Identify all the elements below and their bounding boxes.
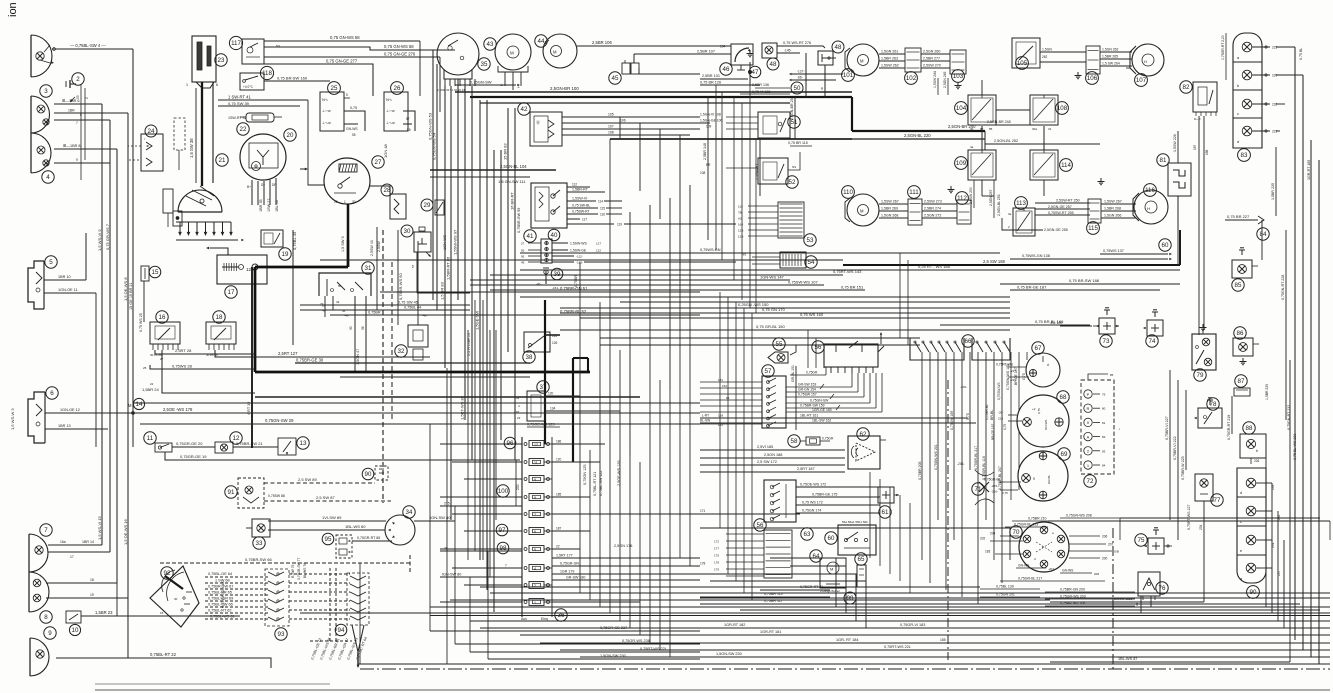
svg-text:0,75GN 125: 0,75GN 125 <box>583 465 587 485</box>
component 93 number <box>275 628 287 640</box>
component 100 number <box>497 485 509 497</box>
svg-text:3a: 3a <box>1008 212 1012 216</box>
svg-text:104: 104 <box>720 45 726 49</box>
svg-text:0,75 BR 151: 0,75 BR 151 <box>841 285 864 290</box>
wire vert mid x744 <box>743 308 745 593</box>
svg-text:0,75 WS 160: 0,75 WS 160 <box>800 312 824 317</box>
wire vertical bundle x445 <box>444 86 446 368</box>
svg-text:0,75SW-WS 107: 0,75SW-WS 107 <box>788 280 818 285</box>
wire 0,75GR-GE 20 <box>172 446 215 448</box>
component 21 arrow <box>305 168 308 171</box>
svg-text:30a: 30a <box>1032 127 1037 131</box>
svg-text:2,5RT 28: 2,5RT 28 <box>175 348 192 353</box>
wire 66 arrow <box>789 79 792 81</box>
wire y345 <box>600 344 920 346</box>
component 97 number <box>496 524 508 536</box>
wire 40 out1 <box>552 242 568 244</box>
svg-text:9: 9 <box>48 630 52 637</box>
svg-text:1BL-WS 87: 1BL-WS 87 <box>1118 657 1137 661</box>
svg-text:0,75 BR 227: 0,75 BR 227 <box>1227 214 1250 219</box>
component 57 switch panel <box>762 376 786 428</box>
component 92 ignition steering lock <box>150 566 199 627</box>
svg-text:48: 48 <box>770 61 777 68</box>
svg-text:0,75BL-WS 61: 0,75BL-WS 61 <box>210 615 235 619</box>
wire lamp4 b <box>54 162 110 164</box>
svg-text:1,5 WS-W 3: 1,5 WS-W 3 <box>10 408 15 430</box>
svg-text:1,5GN 261: 1,5GN 261 <box>881 50 898 54</box>
svg-text:0,75GR-BL 116: 0,75GR-BL 116 <box>982 456 986 480</box>
svg-text:78: 78 <box>1210 401 1217 408</box>
svg-text:1,5 SW 38: 1,5 SW 38 <box>189 138 194 158</box>
component 82 switch <box>1193 82 1217 112</box>
wire bottom y566 <box>790 566 846 613</box>
svg-text:Aus: Aus <box>521 617 527 621</box>
svg-text:2,5BR 107: 2,5BR 107 <box>697 50 715 54</box>
svg-text:104: 104 <box>956 105 967 112</box>
svg-text:0,75 SW 45: 0,75 SW 45 <box>398 301 418 305</box>
component 6 number <box>46 387 58 399</box>
wire vert x430 <box>429 424 431 631</box>
svg-text:24: 24 <box>148 128 155 135</box>
fuse 8 <box>529 494 544 501</box>
wire 70 right 207 <box>1069 543 1106 545</box>
component 38 number <box>523 351 535 363</box>
wire 0,75GN-SW <box>455 84 516 86</box>
component 10 relay <box>66 611 81 623</box>
component 86 lamp <box>1233 338 1253 356</box>
svg-text:107: 107 <box>608 125 614 129</box>
wire fuse out 187 <box>552 530 590 532</box>
svg-text:-151-: -151- <box>552 286 559 290</box>
svg-text:⊥⎓w: ⊥⎓w <box>322 109 331 113</box>
component 41 number <box>524 230 536 242</box>
dashed wires 95 down <box>329 568 331 641</box>
svg-text:c: c <box>1237 112 1239 116</box>
svg-text:187: 187 <box>556 527 562 531</box>
svg-text:GR-SW 180: GR-SW 180 <box>566 576 585 580</box>
component 55 lighter <box>768 352 788 363</box>
svg-text:28: 28 <box>322 304 326 308</box>
svg-text:0,75GN-WS 201: 0,75GN-WS 201 <box>934 444 938 470</box>
svg-text:1,5GN-VI 108: 1,5GN-VI 108 <box>700 113 721 117</box>
svg-text:127: 127 <box>596 242 601 246</box>
component 90 number <box>362 468 374 480</box>
svg-text:2,5BR 106: 2,5BR 106 <box>592 40 612 45</box>
wire 1SW 68 <box>205 582 268 584</box>
svg-text:2,5GN-BL 104: 2,5GN-BL 104 <box>500 164 527 169</box>
svg-text:5: 5 <box>534 548 536 552</box>
dashed vertical x392 <box>391 262 393 420</box>
svg-text:105: 105 <box>1017 60 1028 67</box>
svg-text:0,75SW 157: 0,75SW 157 <box>798 393 817 397</box>
wire 1,5GN-SW 230b <box>488 658 700 660</box>
component 40 number <box>548 229 560 241</box>
wire 0,75BL-WS 61 <box>205 618 268 620</box>
svg-text:6: 6 <box>50 390 54 397</box>
svg-text:0,75SW 169: 0,75SW 169 <box>950 411 954 430</box>
component 90 tail lamp cluster <box>1237 468 1266 583</box>
svg-text:1SW 27: 1SW 27 <box>267 198 271 212</box>
svg-text:1,5GN: 1,5GN <box>1042 48 1052 52</box>
svg-text:7: 7 <box>76 121 78 125</box>
svg-text:IGN-SW 80: IGN-SW 80 <box>430 515 451 520</box>
component 91 number <box>225 486 237 498</box>
wire 1VI-SW 89 <box>268 520 386 522</box>
wire 2,5BR 107 <box>634 53 731 55</box>
svg-text:1,5SW-WS: 1,5SW-WS <box>570 242 587 246</box>
wire vertical bundle x487 <box>486 100 488 590</box>
svg-text:R-SW 79: R-SW 79 <box>291 564 295 578</box>
gauge 67 clock <box>1026 353 1060 387</box>
wire 41 out rt <box>567 191 605 193</box>
wire 1BR 10 <box>44 279 86 281</box>
svg-text:-217-: -217- <box>1010 369 1017 373</box>
wire 41 out bl <box>567 207 598 209</box>
svg-text:34: 34 <box>406 509 413 516</box>
wire right bundle x954 <box>953 352 955 540</box>
svg-text:202: 202 <box>980 537 986 541</box>
svg-text:100: 100 <box>498 488 509 495</box>
wire 67 in b <box>1008 376 1029 378</box>
junction 71 <box>975 470 994 476</box>
svg-text:90: 90 <box>365 471 372 478</box>
svg-text:BR: BR <box>706 163 711 167</box>
wire 0,75GN 170 <box>560 312 1010 314</box>
svg-text:0,75BL>GR 69: 0,75BL>GR 69 <box>208 597 233 601</box>
wire bottom y615 <box>430 615 1330 617</box>
wire y338 <box>600 337 920 339</box>
svg-text:94: 94 <box>338 627 345 634</box>
svg-text:57: 57 <box>411 264 415 268</box>
wire 22 to coil <box>308 100 325 185</box>
svg-text:102: 102 <box>906 75 917 82</box>
component 104 number <box>955 102 968 115</box>
svg-text:110: 110 <box>843 189 853 196</box>
svg-text:2,5BR 101: 2,5BR 101 <box>702 74 720 78</box>
svg-text:13: 13 <box>300 440 307 447</box>
wire 196 down <box>195 88 197 183</box>
component 24 sensor box <box>141 134 163 171</box>
svg-text:P: P <box>1087 392 1090 397</box>
svg-text:⊥⎓w: ⊥⎓w <box>386 109 395 113</box>
svg-text:108: 108 <box>700 171 706 175</box>
headlamp unit 7 <box>29 534 48 572</box>
svg-text:1GR 179: 1GR 179 <box>560 570 574 574</box>
component 60 number <box>825 532 837 544</box>
component 11 switch <box>155 443 172 452</box>
svg-text:12B: 12B <box>738 229 743 233</box>
wire vert mid x736 <box>735 302 737 581</box>
wire 0,75WS 172 <box>796 504 880 506</box>
motor 110 <box>847 194 879 226</box>
svg-text:17: 17 <box>228 289 235 296</box>
component 69 number <box>1058 448 1070 460</box>
wire 0,75SW-RT 255 <box>1035 214 1090 216</box>
svg-text:1,5GN 266: 1,5GN 266 <box>1104 214 1121 218</box>
component 112 connector <box>957 200 971 224</box>
wire vert mid x808 <box>807 330 809 368</box>
wire 0,75BR x <box>330 314 420 316</box>
svg-text:30: 30 <box>404 228 411 235</box>
component 46 number <box>720 63 732 75</box>
wire elbow x620 <box>619 117 621 139</box>
component 18 relay <box>206 322 236 344</box>
wire 0,75BL-SW 66b <box>205 606 268 608</box>
svg-text:2,5 SW 168: 2,5 SW 168 <box>983 259 1006 264</box>
svg-text:2,5 SW 87: 2,5 SW 87 <box>316 495 335 500</box>
component 56 number <box>754 519 766 531</box>
component 112 number <box>956 192 969 205</box>
component 28 sensor <box>390 194 406 219</box>
svg-text:1,5BR-RT: 1,5BR-RT <box>572 188 589 192</box>
wire funnel 94 <box>310 640 352 642</box>
component 84 number <box>1257 228 1269 240</box>
svg-text:2,5OE -WS 178: 2,5OE -WS 178 <box>163 407 193 412</box>
wire 0,75BL 43 <box>292 230 294 345</box>
thick vert x573 <box>572 358 574 462</box>
svg-text:72: 72 <box>1087 478 1094 485</box>
svg-text:0,75GR-RT 85: 0,75GR-RT 85 <box>357 536 380 540</box>
headlamp unit 4 <box>31 133 51 173</box>
svg-text:178: 178 <box>700 562 706 566</box>
wire 70 in 204 <box>1000 535 1019 537</box>
svg-text:63: 63 <box>804 531 811 538</box>
wire 2,5OE-WS 178 <box>133 412 700 414</box>
component 106 number <box>1086 72 1099 85</box>
svg-text:0,75BR-VI 227: 0,75BR-VI 227 <box>1165 416 1169 440</box>
svg-text:0,75GR-BL 217: 0,75GR-BL 217 <box>1018 577 1042 581</box>
wire 83b out <box>1252 74 1270 76</box>
svg-text:1GN-GE 12: 1GN-GE 12 <box>60 408 80 412</box>
svg-text:A2: A2 <box>738 217 742 221</box>
wire 0,75GN-GE 276 <box>264 56 440 58</box>
component 61 number <box>879 506 891 518</box>
wire comp2 down a <box>80 84 82 180</box>
component 75 number <box>1135 534 1147 546</box>
svg-text:109: 109 <box>706 125 712 129</box>
wire 0,75SW-WS 107 <box>470 284 824 286</box>
svg-text:2,5 SW 172: 2,5 SW 172 <box>757 460 777 464</box>
svg-text:0,75OE-WS 172: 0,75OE-WS 172 <box>800 483 826 487</box>
svg-text:M: M <box>510 51 514 56</box>
svg-text:D+: D+ <box>261 183 265 187</box>
wire 1BR 6 <box>54 103 102 105</box>
wire 25 out2 <box>344 123 358 125</box>
svg-text:NS: NS <box>792 165 796 169</box>
svg-text:218: 218 <box>998 417 1003 421</box>
svg-text:207: 207 <box>1108 543 1114 547</box>
svg-text:1,5 SW 264: 1,5 SW 264 <box>1102 62 1120 66</box>
fuse 12 <box>529 441 544 448</box>
battery 17 box <box>217 255 267 284</box>
lamp 5 body <box>28 261 44 309</box>
svg-text:d: d <box>1240 491 1242 495</box>
svg-text:— 0,75BL-SW 4 —: — 0,75BL-SW 4 — <box>70 43 106 48</box>
component 2 fastener <box>70 83 76 85</box>
svg-text:54: 54 <box>808 259 815 266</box>
svg-text:1,5GN 262: 1,5GN 262 <box>1102 48 1119 52</box>
component 88 number <box>1243 422 1255 434</box>
component 24 number <box>145 125 157 137</box>
svg-text:181: 181 <box>718 378 723 382</box>
svg-text:GR-BL: GR-BL <box>1047 475 1051 485</box>
svg-text:0,75BR-W 225: 0,75BR-W 225 <box>1181 456 1185 480</box>
wire relay links vertical <box>981 126 983 150</box>
wire 70 right 206 <box>1069 535 1100 537</box>
component 30 sender <box>414 232 431 252</box>
svg-text:82: 82 <box>1183 84 1190 91</box>
wire 0,75GR-GE 237 <box>430 630 700 632</box>
component 74 number <box>1146 335 1158 347</box>
wire fuse out 7 <box>500 567 522 569</box>
wire 1BL-WS 60 <box>268 529 385 531</box>
svg-text:17: 17 <box>70 555 74 559</box>
svg-text:0,75 BL: 0,75 BL <box>1299 48 1303 60</box>
svg-text:2,5SW 250: 2,5SW 250 <box>969 187 973 204</box>
component 103 connector <box>950 50 966 74</box>
wire 1,5GN-SW 111 <box>430 176 530 178</box>
wire 72 top <box>1088 374 1108 380</box>
wire 2,5GN-BR 248 <box>985 124 1033 126</box>
fuse 6 <box>529 528 544 535</box>
svg-text:⊞—1BR 8: ⊞—1BR 8 <box>63 144 81 148</box>
component 50 number <box>791 82 803 94</box>
wire 40 out2 <box>552 249 568 251</box>
component 78 number <box>1207 398 1219 410</box>
wire vert x600 <box>599 302 601 607</box>
headlamp unit 3 <box>31 96 50 133</box>
ground 56w <box>880 334 882 344</box>
wire 0,75GR-BL 69 <box>1000 481 1021 483</box>
wire 111 a <box>922 203 957 205</box>
wire vert x447 <box>446 368 448 664</box>
svg-text:e: e <box>1240 549 1242 553</box>
wire 90 stubs <box>1256 482 1272 484</box>
svg-text:0,75GR-WS 238: 0,75GR-WS 238 <box>622 639 650 643</box>
svg-text:-127-: -127- <box>797 70 804 74</box>
svg-text:172: 172 <box>714 540 719 544</box>
wire 28 into fuse <box>440 550 522 552</box>
relay 104 <box>968 95 996 125</box>
svg-text:8: 8 <box>44 614 48 621</box>
relay 108 <box>1030 95 1058 125</box>
wire vertical bundle x433 <box>432 50 434 300</box>
wire 115 a <box>1101 203 1136 205</box>
svg-text:0,75WS-GN 138: 0,75WS-GN 138 <box>1022 254 1050 258</box>
svg-text:0,75BL 139: 0,75BL 139 <box>996 585 1014 589</box>
svg-text:2,5VI 185: 2,5VI 185 <box>757 445 773 449</box>
svg-text:9: 9 <box>1033 477 1035 481</box>
wire 53 ins <box>748 205 778 207</box>
component 78 switch <box>1198 408 1222 428</box>
svg-text:64: 64 <box>813 553 820 560</box>
wire 115 b <box>1101 210 1136 212</box>
dashed vertical x383 <box>382 230 384 503</box>
svg-text:1,5 WS-VI 15: 1,5 WS-VI 15 <box>97 515 102 540</box>
svg-text:109: 109 <box>956 160 967 167</box>
svg-text:d: d <box>1047 363 1049 367</box>
svg-text:183: 183 <box>985 550 991 554</box>
svg-text:M: M <box>553 50 557 55</box>
wire 48b down <box>824 65 826 97</box>
svg-text:32: 32 <box>398 348 405 355</box>
svg-text:134: 134 <box>550 407 556 411</box>
svg-text:35: 35 <box>481 61 488 68</box>
svg-text:226: 226 <box>1254 459 1260 463</box>
wire bundle left x102 <box>101 104 103 545</box>
thick bus y372 <box>255 371 590 374</box>
svg-text:0,75BL 44: 0,75BL 44 <box>404 306 421 310</box>
wire vert x660 <box>659 380 661 650</box>
svg-text:60: 60 <box>828 535 835 542</box>
wire 2,5GN-BR 100 <box>455 91 852 93</box>
component 11 number <box>144 432 156 444</box>
svg-text:0,75RT-WS: 0,75RT-WS <box>996 363 1014 367</box>
wire 111 b <box>922 210 957 212</box>
svg-text:0,75GR-BL 213: 0,75GR-BL 213 <box>1014 523 1038 527</box>
wire 0,75BR-GN 200 <box>1045 591 1135 593</box>
svg-text:0,75 WS-RT 276: 0,75 WS-RT 276 <box>783 41 811 45</box>
svg-text:0,75GR-BL 217: 0,75GR-BL 217 <box>974 446 978 470</box>
svg-text:0,75 BR 115: 0,75 BR 115 <box>788 141 808 145</box>
thick corner x1180 <box>1179 230 1181 265</box>
svg-text:36: 36 <box>361 326 365 330</box>
component 118 thermo switch <box>240 73 264 90</box>
svg-text:58: 58 <box>791 438 798 445</box>
svg-text:9: 9 <box>534 478 536 482</box>
svg-text:NS: NS <box>742 253 746 257</box>
svg-text:0,75BR-WS 206: 0,75BR-WS 206 <box>1060 602 1085 606</box>
component 39 fuse pin <box>545 270 547 284</box>
wires 56w risers <box>851 373 853 387</box>
svg-text:26: 26 <box>394 85 401 92</box>
wire vert x590 <box>589 450 591 600</box>
svg-text:0,75BR: 0,75BR <box>368 311 381 315</box>
component 32 number <box>395 345 407 357</box>
svg-text:37: 37 <box>540 384 547 391</box>
component 18 number <box>213 311 225 323</box>
wire 2,5GN-BL 104 <box>430 169 556 171</box>
svg-text:0,75BR 205: 0,75BR 205 <box>918 461 922 480</box>
wire 1BL-SW 162 <box>786 422 976 424</box>
svg-text:175: 175 <box>714 554 719 558</box>
wire y377 <box>340 376 530 378</box>
svg-text:+4 0°C: +4 0°C <box>243 85 254 89</box>
svg-text:51: 51 <box>791 119 798 126</box>
wire 0,75RT-WS 22Lb <box>470 651 700 653</box>
fuse box left rail <box>521 437 523 617</box>
wire 0,75BR 151 <box>490 289 865 291</box>
svg-text:11: 11 <box>534 461 538 465</box>
wire 90 stub drop a <box>1271 483 1273 613</box>
wire vert x680 <box>679 270 681 558</box>
component 16 number <box>156 311 168 323</box>
component 64 number <box>810 550 822 562</box>
wire right bundle x930 <box>929 352 931 583</box>
svg-text:N∿: N∿ <box>322 97 328 102</box>
wire bundle left x133 <box>132 49 134 413</box>
svg-text:0,75GR-GE 237: 0,75GR-GE 237 <box>600 626 627 630</box>
wire 0,75BL-SW 4 <box>56 48 133 50</box>
wire vertical bundle x472 <box>471 86 473 460</box>
wire 0,75GN 174 <box>796 512 880 514</box>
wire 0,25GN-WS 150 <box>560 307 1010 309</box>
svg-text:2,5SW 270: 2,5SW 270 <box>923 64 941 68</box>
gauge 70 combo <box>1019 522 1069 572</box>
wire 72 right rail <box>1113 380 1115 474</box>
wire 110 b <box>879 210 908 212</box>
svg-text:M: M <box>128 403 132 408</box>
